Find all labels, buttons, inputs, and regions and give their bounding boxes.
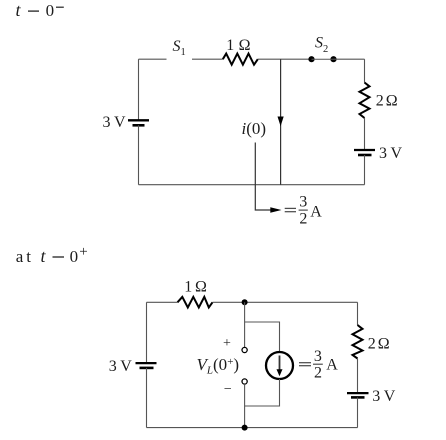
svg-text:t: t [16,0,22,20]
wire left side down to battery B1 [138,59,140,119]
top wire left segment (bottom circuit) [147,301,178,303]
wire R1 to junction with middle branch [258,58,312,60]
svg-text:−: − [224,382,232,397]
current source internal arrow (downward) [277,356,283,377]
svg-text:a: a [16,247,24,266]
wire R2 to battery B2 [364,118,366,150]
top wire from R3 to top-right corner [213,301,358,303]
svg-text:t: t [26,247,31,266]
label at t = 0+ (heading, bottom circuit) [16,244,88,266]
switch S2 (two contact dots with bar) [308,56,336,62]
svg-text:V: V [391,145,403,162]
svg-text:+: + [79,244,87,260]
annotation arrowhead pointing right [270,207,281,213]
resistor R2 2 Ohm (right, top circuit, vertical zigzag) [360,83,370,119]
wire R4 to battery B4 [357,359,359,393]
svg-text:1: 1 [226,37,234,54]
bottom wire (top circuit) [139,184,365,186]
wire right side down to resistor R2 [364,59,366,82]
svg-text:3: 3 [372,388,380,405]
bottom wire (bottom circuit) [147,427,358,429]
svg-text:2: 2 [314,364,322,381]
current direction arrowhead on middle branch [278,117,284,127]
svg-text:3: 3 [299,194,307,211]
right wire down to resistor R4 [357,302,359,325]
switch S1 (open gap) with label S1 [173,38,186,58]
resistor R4 2 Ohm (right, bottom circuit, vertical zigzag) [353,325,363,359]
value label = 3/2 A (current source) [299,348,338,381]
svg-text:Ω: Ω [386,93,398,110]
annotation leader line from i(0) down and right [255,143,271,211]
wire top-left corner to switch S1 [139,58,167,60]
value label 3 V (battery B4) [372,388,396,405]
svg-text:VL(0+): VL(0+) [197,355,240,377]
value label 1 Ohm (bottom circuit) [184,279,207,296]
terminal node - (open circle) [242,379,247,384]
middle branch upper wire [244,302,246,347]
current source loop bottom wire [245,379,280,406]
svg-text:+: + [223,336,231,351]
wire battery B3 to bottom-left corner [146,368,148,428]
svg-text:3: 3 [103,114,111,131]
battery B1 3V (left, top circuit) [128,120,149,125]
svg-text:Ω: Ω [195,279,207,296]
value label 3 V (battery B1) [103,114,127,131]
svg-text:3: 3 [314,348,322,365]
current source I1 (circle symbol) [266,352,293,379]
svg-text:Ω: Ω [239,37,251,54]
svg-text:i(0): i(0) [242,119,267,138]
svg-text:V: V [384,388,396,405]
wire S1 to resistor R1 [192,58,223,60]
value label 3 V (battery B2) [379,145,403,162]
wire battery B4 to bottom-right corner [357,397,359,427]
svg-text:S1: S1 [173,38,186,58]
svg-text:0: 0 [46,1,55,20]
value label 3 V (battery B3) [109,358,133,375]
junction node (top of inductor branch) [242,299,248,305]
wire battery B1 to bottom-left corner [138,125,140,184]
battery B2 3V (right, top circuit) [354,150,375,155]
svg-text:V: V [120,358,132,375]
svg-text:0: 0 [70,247,79,266]
middle branch lower wire [244,384,246,428]
svg-text:A: A [326,357,338,374]
wire battery B2 to bottom-right corner [364,155,366,185]
svg-text:1: 1 [184,279,192,296]
svg-text:3: 3 [109,358,117,375]
svg-text:2: 2 [368,336,376,353]
current label i(0) [242,119,267,138]
label S2 [315,35,328,56]
current source loop top wire [245,322,280,352]
battery B4 3V (right, bottom circuit) [347,393,369,397]
junction node (bottom of inductor branch) [242,425,248,431]
value annotation = 3/2 A (top circuit) [285,194,323,228]
value label 2 Ohm (top circuit) [376,93,398,110]
middle branch wire (inductor branch, top circuit) [280,59,282,185]
svg-text:2: 2 [376,93,384,110]
terminal node + (open circle) [242,347,247,352]
wire S2 to top-right corner [334,58,365,60]
resistor R1 1 Ohm (top circuit, horizontal zigzag) [223,54,258,65]
battery B3 3V (left, bottom circuit) [136,363,157,368]
svg-text:3: 3 [379,145,387,162]
svg-text:Ω: Ω [378,336,390,353]
voltage label VL(0+) [197,355,240,377]
label t = 0- (heading, top circuit) [16,0,64,20]
svg-text:S2: S2 [315,35,328,56]
resistor R3 1 Ohm (bottom circuit, horizontal zigzag) [178,297,213,308]
svg-text:A: A [310,204,322,221]
svg-text:V: V [114,114,126,131]
svg-text:2: 2 [299,210,307,227]
svg-text:t: t [41,246,47,266]
left wire down to battery B3 [146,302,148,363]
value label 1 Ohm (top circuit) [226,37,250,54]
value label 2 Ohm (bottom circuit) [368,336,390,353]
